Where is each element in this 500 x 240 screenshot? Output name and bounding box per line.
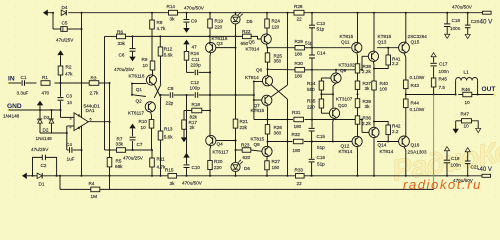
node rail C13 xyxy=(311,12,313,14)
label R42 value xyxy=(392,129,399,134)
terminal OUT xyxy=(482,86,496,96)
transistor Q9 xyxy=(331,73,341,83)
svg-text:DA1: DA1 xyxy=(86,108,95,113)
wire Q12 collector down xyxy=(357,147,359,177)
net arrow R16 top xyxy=(183,40,189,52)
label 0.1/3W top xyxy=(410,75,425,80)
label 470u/50V bottomright xyxy=(453,178,474,183)
label C3 xyxy=(66,94,72,99)
label R26 value xyxy=(274,131,282,136)
label C8 value xyxy=(166,100,174,105)
label R11 xyxy=(157,156,166,161)
node rail C20 xyxy=(467,12,469,14)
label R10 value xyxy=(141,125,147,130)
label R41 xyxy=(392,56,401,61)
svg-text:2.7k: 2.7k xyxy=(90,91,99,96)
resistor R27 xyxy=(265,157,270,177)
label R19 xyxy=(215,18,224,23)
label C18 value xyxy=(450,26,461,31)
capacitor C8 xyxy=(170,92,172,98)
svg-text:51p: 51p xyxy=(305,41,313,46)
diode D4 xyxy=(61,10,66,15)
svg-text:R5: R5 xyxy=(116,158,122,163)
wire input xyxy=(9,82,61,84)
label R8 xyxy=(157,20,163,25)
svg-text:470u/50V: 470u/50V xyxy=(452,4,473,9)
label C12 value xyxy=(190,86,201,91)
label R17 value xyxy=(190,125,196,130)
label R27 value xyxy=(272,165,280,170)
label R35 xyxy=(307,99,316,104)
wire C5 branch left xyxy=(52,12,54,29)
terminal IN xyxy=(8,76,15,85)
label C18 xyxy=(452,18,461,23)
label R6 xyxy=(117,29,123,34)
svg-text:1M: 1M xyxy=(91,194,98,199)
label R26 xyxy=(274,125,283,130)
svg-text:Q3: Q3 xyxy=(217,41,224,46)
label R13 value xyxy=(164,135,173,140)
inductor L1 xyxy=(456,78,478,95)
svg-text:5.6k: 5.6k xyxy=(164,135,173,140)
capacitor C15 xyxy=(309,128,315,158)
svg-text:R27: R27 xyxy=(272,159,281,164)
svg-text:KT6116: KT6116 xyxy=(129,73,145,78)
label C2 xyxy=(41,163,47,168)
label Q3 xyxy=(217,41,224,46)
wire C5 branch right xyxy=(81,12,83,29)
svg-text:D5: D5 xyxy=(247,19,253,24)
label R21 value xyxy=(240,125,248,130)
wire Q16 collector down xyxy=(404,147,407,177)
transistor Q13 xyxy=(368,51,378,61)
svg-text:D1: D1 xyxy=(39,182,45,187)
svg-text:1n: 1n xyxy=(67,100,73,105)
svg-text:1N4148: 1N4148 xyxy=(36,136,53,141)
label C16 xyxy=(317,155,326,160)
capacitor C16 xyxy=(309,159,315,177)
resistor R1 xyxy=(41,81,50,86)
wire op-amp output xyxy=(88,121,110,123)
wire mid column xyxy=(235,36,237,119)
svg-text:0.1/3W: 0.1/3W xyxy=(410,75,425,80)
wire long vertical node D4-C5 down xyxy=(81,28,83,176)
label C15 xyxy=(317,134,326,139)
label R2 value xyxy=(65,72,73,77)
label R30 xyxy=(295,61,304,66)
wire Q15 emitter xyxy=(404,53,406,80)
capacitor C7 xyxy=(130,137,136,150)
svg-text:R28: R28 xyxy=(294,4,303,9)
wire Q1 base xyxy=(131,83,146,85)
fuse -40V terminal xyxy=(482,174,491,177)
terminal GND xyxy=(7,103,22,111)
ground arrow C17 xyxy=(431,53,436,57)
svg-text:C3: C3 xyxy=(66,94,72,99)
label R18 xyxy=(192,102,201,107)
net arrow R17 xyxy=(181,137,187,142)
resistor R10 xyxy=(149,120,154,151)
wire bias row xyxy=(133,35,243,37)
svg-text:C5: C5 xyxy=(62,20,68,25)
svg-text:R13: R13 xyxy=(164,126,173,131)
svg-text:R15: R15 xyxy=(165,167,174,172)
label C5 xyxy=(62,20,68,25)
resistor R38 xyxy=(355,64,360,81)
label R31 xyxy=(292,110,301,115)
label R5 xyxy=(116,158,122,163)
label R2 xyxy=(66,65,72,70)
label R29 xyxy=(295,39,304,44)
svg-text:R21: R21 xyxy=(240,119,249,124)
svg-text:100p: 100p xyxy=(190,86,201,91)
svg-text:Q9: Q9 xyxy=(340,68,347,73)
wire base link Q6-Q7 xyxy=(253,82,255,102)
wire x287 vertical xyxy=(287,12,289,177)
label R47 value xyxy=(464,124,470,129)
svg-text:47u/25V: 47u/25V xyxy=(31,147,49,152)
label R28 value xyxy=(297,17,303,22)
wire Q10 emitter xyxy=(333,118,335,141)
label C20 xyxy=(471,19,480,24)
capacitor C12 xyxy=(195,92,197,98)
transistor Q3 xyxy=(206,43,216,53)
svg-text:C20: C20 xyxy=(471,19,480,24)
node rail R19 xyxy=(209,12,211,14)
diode D1 xyxy=(37,173,43,178)
svg-text:R2: R2 xyxy=(66,65,72,70)
label C7 value xyxy=(123,155,144,160)
label C1 xyxy=(21,75,27,80)
label R3 xyxy=(91,76,97,81)
svg-text:R14: R14 xyxy=(167,4,176,9)
net arrow out-left xyxy=(22,173,27,179)
node rail R24 xyxy=(266,12,268,14)
svg-text:7.5: 7.5 xyxy=(439,85,446,90)
svg-text:2.2k: 2.2k xyxy=(362,69,371,74)
wire bottom rail mid xyxy=(168,175,296,177)
transistor Q7 xyxy=(262,95,272,105)
resistor R32 xyxy=(293,139,303,144)
wire Q6-Q7 cross xyxy=(271,85,287,99)
label R3 value xyxy=(90,91,99,96)
svg-text:C17: C17 xyxy=(439,62,448,67)
label Q5 xyxy=(249,39,256,44)
svg-text:KT815: KT815 xyxy=(378,34,392,39)
wire bias mid link xyxy=(321,93,333,95)
svg-text:Q1: Q1 xyxy=(136,87,143,92)
capacitor C17 xyxy=(430,57,436,78)
svg-text:1N4148: 1N4148 xyxy=(3,114,20,119)
wire Q15 collector xyxy=(404,13,406,43)
wire bottom rail left xyxy=(27,175,168,177)
svg-text:180: 180 xyxy=(293,148,301,153)
watermark radiokot.ru xyxy=(403,177,482,192)
label KT6117 Q4 xyxy=(213,150,229,155)
svg-text:470u/25V: 470u/25V xyxy=(123,155,144,160)
label R45 value xyxy=(439,85,446,90)
svg-text:R40: R40 xyxy=(380,81,389,86)
wire diode row xyxy=(40,132,68,134)
svg-text:180: 180 xyxy=(295,51,303,56)
diode D2 xyxy=(49,119,54,123)
label KT815 Q8 xyxy=(251,136,265,141)
label R21 xyxy=(240,119,249,124)
wire Q2 to R10 xyxy=(150,112,151,120)
label 1N4148 diodes xyxy=(36,136,53,141)
label KT814 Q14 xyxy=(380,149,394,154)
resistor R12 xyxy=(158,47,163,84)
wire Q11 emitter xyxy=(356,53,359,64)
label R33 xyxy=(295,167,304,172)
label D3 xyxy=(44,115,50,120)
wire C11 row xyxy=(187,71,212,73)
wire R18 row xyxy=(184,110,211,112)
svg-text:KT815: KT815 xyxy=(251,136,265,141)
svg-text:120: 120 xyxy=(272,24,280,29)
label 1N4148 left xyxy=(3,114,20,119)
svg-text:D6: D6 xyxy=(244,166,250,171)
wire C10 column xyxy=(186,95,188,177)
label Q15 xyxy=(411,39,420,44)
label 0.1/3W bottom xyxy=(410,107,425,112)
wire R30 row xyxy=(268,68,363,71)
svg-text:22: 22 xyxy=(297,181,303,186)
svg-text:C10: C10 xyxy=(192,165,201,170)
label R4 xyxy=(89,181,95,186)
svg-text:R3: R3 xyxy=(91,76,97,81)
capacitor C19 xyxy=(444,151,450,177)
label R36 value xyxy=(362,121,371,126)
svg-text:650: 650 xyxy=(241,41,249,46)
label Q16 xyxy=(411,142,420,147)
capacitor C4 xyxy=(70,147,72,153)
svg-text:470u/50V: 470u/50V xyxy=(182,181,203,186)
wire D2 bottom xyxy=(51,123,53,133)
resistor R13 xyxy=(158,131,163,177)
svg-text:2.2: 2.2 xyxy=(392,61,399,66)
label KT6116 Q3 xyxy=(212,36,228,41)
wire Q14 base stub xyxy=(361,119,369,133)
wire Q2 base xyxy=(132,95,146,97)
node rail Q15 xyxy=(405,12,407,14)
svg-text:Q12: Q12 xyxy=(341,144,350,149)
wire Q6 base xyxy=(253,81,263,83)
transistor Q15 xyxy=(399,42,410,53)
svg-text:470u/50V: 470u/50V xyxy=(184,5,205,10)
resistor R18 xyxy=(192,108,202,113)
svg-text:2SC3264: 2SC3264 xyxy=(408,34,428,39)
svg-text:33k: 33k xyxy=(116,142,124,147)
net arrow C9 xyxy=(183,28,189,33)
node GND-D3 xyxy=(39,109,41,111)
label R23 value xyxy=(243,155,251,160)
wire bottom rail right xyxy=(304,175,482,177)
resistor R40 xyxy=(372,81,377,127)
svg-text:10: 10 xyxy=(143,63,149,68)
resistor R23 xyxy=(242,148,251,153)
wire Q5-R25 xyxy=(266,44,268,53)
label KT814 Q5 xyxy=(246,47,260,52)
resistor R20 xyxy=(208,146,213,177)
svg-text:KT815: KT815 xyxy=(340,34,354,39)
label R45 xyxy=(439,77,448,82)
label R35 value xyxy=(307,104,315,109)
svg-text:R45: R45 xyxy=(439,77,448,82)
transistor Q5 xyxy=(261,34,271,44)
label R31 value xyxy=(294,124,302,129)
label R39 value xyxy=(365,104,371,109)
wire R23 row xyxy=(236,149,243,151)
svg-text:IN: IN xyxy=(8,76,15,83)
wire Q7 base xyxy=(254,99,262,101)
label R14 xyxy=(167,4,176,9)
led D5 xyxy=(231,12,243,36)
label R1 value xyxy=(42,91,50,96)
wire Q7 emitter xyxy=(267,105,269,120)
label Q12 xyxy=(341,144,350,149)
svg-text:R22: R22 xyxy=(242,29,251,34)
label DA1 xyxy=(86,108,95,113)
svg-text:100n: 100n xyxy=(451,162,462,167)
wire Q16 base row xyxy=(377,141,399,143)
svg-text:C12: C12 xyxy=(191,80,200,85)
capacitor C18 xyxy=(444,13,450,35)
svg-text:3k: 3k xyxy=(170,17,176,22)
wire Q9 collector xyxy=(335,69,337,73)
svg-text:180: 180 xyxy=(295,73,303,78)
wire op-amp pin3 xyxy=(61,110,75,117)
capacitor C13 xyxy=(309,13,315,49)
label R13 xyxy=(164,126,173,131)
svg-text:R43: R43 xyxy=(411,83,420,88)
svg-text:470: 470 xyxy=(42,91,50,96)
resistor R3 xyxy=(61,81,110,86)
svg-text:10: 10 xyxy=(141,125,147,130)
label R24 value xyxy=(272,24,280,29)
svg-text:R16: R16 xyxy=(190,51,199,56)
resistor R26 xyxy=(265,125,270,147)
label R32 value xyxy=(293,148,301,153)
label Q10 xyxy=(338,103,347,108)
label R25 xyxy=(274,54,283,59)
label C4 value xyxy=(67,156,75,161)
label R24 xyxy=(272,18,281,23)
label KT3107 Q10 xyxy=(336,97,353,102)
label R11 value xyxy=(157,164,166,169)
net arrow R47 left xyxy=(453,129,459,134)
net arrow GND xyxy=(37,101,43,110)
svg-text:22p: 22p xyxy=(166,100,174,105)
wire op-amp pin2 xyxy=(67,126,74,133)
label Q2 xyxy=(136,99,143,104)
svg-text:R34: R34 xyxy=(307,81,316,86)
label R12 value xyxy=(164,52,173,57)
svg-text:R1: R1 xyxy=(42,75,48,80)
label 544uD1 xyxy=(84,104,101,109)
wire C3 column xyxy=(60,83,62,110)
capacitor C1 xyxy=(22,80,24,86)
label R41 value xyxy=(392,61,399,66)
label R44 xyxy=(411,101,420,106)
svg-text:KT814: KT814 xyxy=(339,149,353,154)
wire OUT rail xyxy=(406,94,495,96)
label R10 xyxy=(139,119,148,124)
label D5 xyxy=(247,19,253,24)
wire D3 stub xyxy=(39,110,41,118)
label R32 xyxy=(292,132,301,137)
wire feedback vertical xyxy=(109,82,111,158)
svg-text:Q10: Q10 xyxy=(338,103,347,108)
capacitor C3 xyxy=(58,98,64,101)
label R15 xyxy=(165,167,174,172)
node rail R8 xyxy=(151,12,153,14)
label L1 xyxy=(464,69,470,74)
transistor Q1 xyxy=(146,75,156,85)
resistor R31 xyxy=(294,117,304,122)
op-amp U1 DA1 xyxy=(74,113,88,131)
transistor Q11 xyxy=(352,43,362,53)
resistor R36 xyxy=(355,116,360,136)
wire Q1-Q2 cross xyxy=(154,84,161,98)
transistor Q8 xyxy=(262,146,272,156)
svg-text:2SA1303: 2SA1303 xyxy=(408,149,428,154)
svg-text:3k: 3k xyxy=(365,104,371,109)
label Q11 xyxy=(341,40,350,45)
svg-text:Q2: Q2 xyxy=(136,99,143,104)
svg-text:100n: 100n xyxy=(439,69,450,74)
label R37 xyxy=(363,81,372,86)
capacitor C14 xyxy=(309,48,315,71)
svg-text:C6: C6 xyxy=(119,53,125,58)
label R42 xyxy=(392,123,401,128)
capacitor C9 xyxy=(184,13,190,28)
resistor R11 xyxy=(150,150,155,177)
svg-text:KT6117: KT6117 xyxy=(213,150,229,155)
label KT6116 Q1 xyxy=(129,73,145,78)
wire D2 stub xyxy=(51,110,53,118)
ground arrow C19 xyxy=(444,147,449,151)
node rail Q11 xyxy=(357,12,359,14)
svg-text:4.7k: 4.7k xyxy=(157,26,166,31)
label 470u/50V top xyxy=(184,5,205,10)
svg-text:470u/25V: 470u/25V xyxy=(114,67,135,72)
label C6 xyxy=(119,53,125,58)
label D2 xyxy=(43,127,49,132)
label Q8 xyxy=(254,142,261,147)
label D1 xyxy=(39,182,45,187)
svg-text:Q4: Q4 xyxy=(217,142,224,147)
label R20 xyxy=(214,159,223,164)
resistor R29 xyxy=(295,45,305,50)
svg-text:150: 150 xyxy=(272,165,280,170)
label R9 xyxy=(142,57,148,62)
transistor Q16 xyxy=(399,136,410,147)
node rail Q13 xyxy=(373,12,375,14)
capacitor C11 xyxy=(195,70,197,76)
svg-text:R30: R30 xyxy=(295,61,304,66)
wire Q13 base stub xyxy=(361,56,368,71)
label C17 xyxy=(439,62,448,67)
label R34 xyxy=(307,81,316,86)
wire Q8 column xyxy=(267,120,269,125)
resistor R30 xyxy=(295,68,305,73)
svg-text:R46: R46 xyxy=(462,87,471,92)
label R20 value xyxy=(214,165,222,170)
svg-text:C19: C19 xyxy=(451,156,460,161)
svg-text:100n: 100n xyxy=(450,26,461,31)
svg-text:KT3102: KT3102 xyxy=(339,62,356,67)
